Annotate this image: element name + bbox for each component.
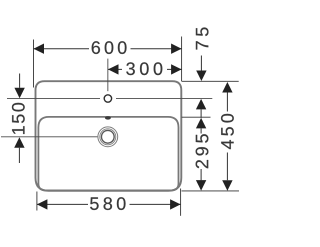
- 75 upper shaft: [200, 56, 202, 72]
- tap hole line: [7, 97, 212, 99]
- 300 dim line: [108, 68, 182, 70]
- 295 bottom arrow: [196, 180, 206, 191]
- 150 label: [12, 103, 25, 134]
- 150 up arrow: [14, 137, 24, 148]
- top edge right ext line: [182, 80, 239, 82]
- 75 down arrow: [196, 71, 206, 82]
- 600 dim left ext line: [33, 40, 35, 88]
- 150 down arrow: [14, 88, 24, 99]
- 300 right arrow: [171, 64, 182, 74]
- bowl edge right ext line: [182, 116, 211, 118]
- 580 right ext line: [180, 189, 182, 216]
- 75 label: [196, 28, 209, 50]
- 300 label: [126, 62, 162, 75]
- 75 lower up arrow: [196, 99, 206, 110]
- 600 label: [92, 41, 127, 54]
- 450 bottom arrow: [222, 180, 232, 191]
- 580 left arrow: [37, 199, 48, 209]
- overflow notch: [105, 116, 111, 119]
- 600 dim line: [34, 48, 182, 50]
- 75-295 connecting shaft: [200, 109, 202, 118]
- 150 lower shaft: [18, 148, 20, 163]
- 150 upper shaft: [19, 74, 21, 88]
- tap hole centerline vertical: [107, 59, 109, 92]
- 295 lower shaft: [200, 169, 202, 180]
- 450 label: [221, 114, 234, 149]
- 580 right arrow: [170, 199, 181, 209]
- drain circles: [98, 127, 118, 147]
- 580 left ext line: [36, 192, 38, 211]
- basin inner bowl: [38, 117, 178, 190]
- 450 upper shaft: [226, 93, 228, 112]
- 600 left arrow: [34, 44, 45, 54]
- 600 right arrow: [171, 44, 182, 54]
- 295 top arrow: [196, 118, 206, 128]
- 295 upper shaft: [200, 128, 202, 133]
- 300 left arrow: [108, 64, 119, 74]
- 450 lower shaft: [226, 153, 228, 181]
- drain line: [1, 136, 98, 138]
- basin outer rim: [36, 81, 182, 191]
- 295 label: [196, 134, 209, 168]
- tap hole circle: [104, 95, 111, 102]
- 580 label: [90, 197, 125, 210]
- 600/300 dim right ext line: [181, 37, 183, 82]
- bottom edge right ext line: [182, 190, 240, 192]
- 580 dim line: [37, 203, 181, 205]
- 450 top arrow: [222, 82, 232, 93]
